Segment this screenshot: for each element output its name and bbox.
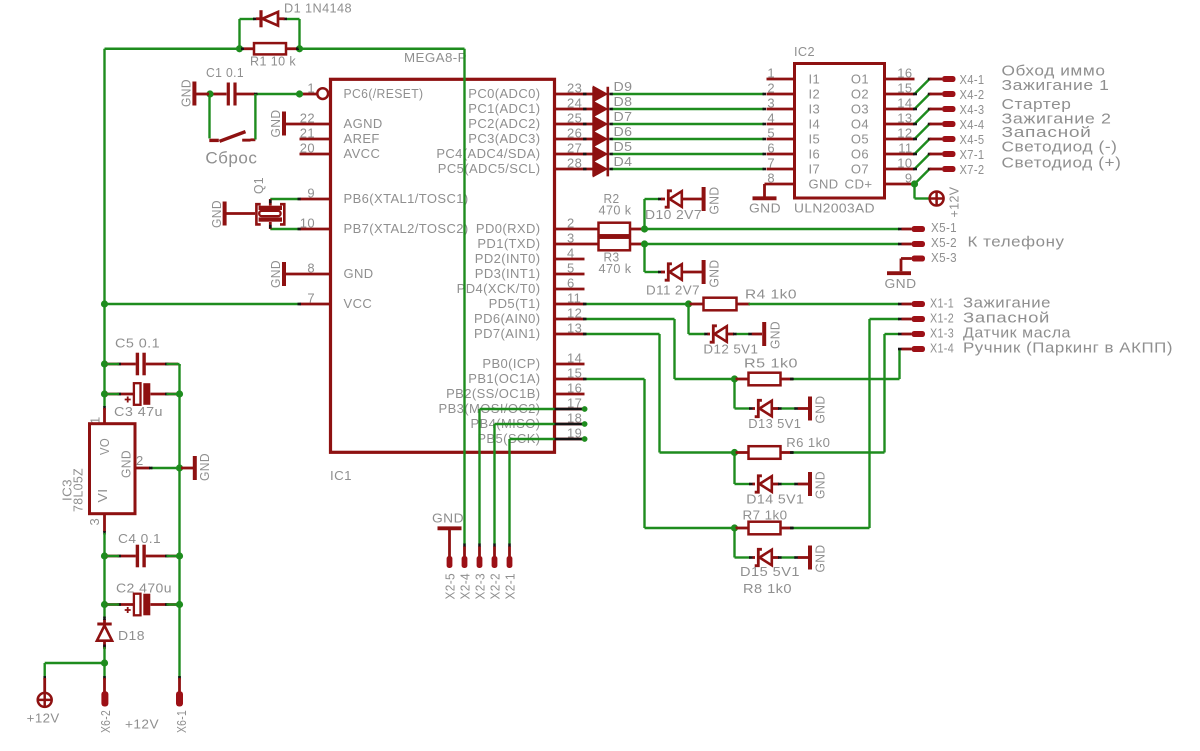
ground bar D10	[702, 187, 706, 211]
IC1 pin 17 PB3(MOSI/OC2) stub	[555, 408, 585, 411]
IC2 pin 12 stub	[885, 138, 915, 141]
svg-text:27: 27	[567, 141, 582, 156]
wire +12V symbol branch	[45, 662, 105, 664]
diode D18	[103, 642, 106, 649]
IC2 pin 16 stub	[885, 78, 915, 81]
ground bar crystal	[223, 202, 227, 226]
IC2 pin 6 stub	[767, 153, 795, 156]
svg-text:25: 25	[567, 111, 582, 126]
svg-text:VO: VO	[97, 438, 112, 455]
svg-text:D18: D18	[118, 628, 145, 643]
junction rail C2	[101, 601, 108, 608]
tip diag row 139	[928, 138, 932, 141]
connector pad X2-4	[462, 556, 468, 568]
connector pad X1-3	[902, 333, 912, 336]
wire +12V left rail lower	[103, 533, 105, 618]
svg-text:14: 14	[567, 351, 582, 366]
connector pad X5 row 244	[902, 243, 912, 246]
svg-text:D9: D9	[614, 79, 633, 94]
svg-text:C3 47u: C3 47u	[114, 404, 163, 419]
ground bar left of C1	[192, 82, 196, 106]
ground bar D11	[702, 260, 706, 284]
connector pad X5-3	[912, 256, 926, 262]
diode D4	[594, 162, 607, 176]
connector pad X6-2	[103, 678, 106, 693]
tip pin row 379	[583, 378, 587, 381]
tip VCC pin7	[298, 303, 302, 306]
junction gnd rail C3	[176, 390, 183, 397]
switch S1 Сброс	[208, 96, 210, 139]
tip R5 out	[790, 378, 794, 381]
wire diagonal pin-row184 to X7-2	[915, 169, 930, 184]
tip D11 left	[658, 271, 662, 274]
svg-text:Светодиод (-): Светодиод (-)	[1002, 139, 1118, 156]
tip R6 out	[790, 451, 794, 454]
junction IC2 pin9	[911, 180, 918, 187]
svg-text:GND: GND	[179, 79, 194, 107]
svg-text:Светодиод (+): Светодиод (+)	[1002, 154, 1122, 171]
svg-text:D6: D6	[614, 124, 633, 139]
tip XTAL2	[298, 228, 301, 231]
svg-text:I2: I2	[809, 86, 821, 101]
tip stub row 184	[913, 183, 917, 186]
svg-text:VCC: VCC	[344, 296, 373, 311]
wire GND right rail	[178, 364, 180, 678]
svg-text:2: 2	[567, 216, 575, 231]
tip D15 mid-left	[778, 556, 782, 559]
svg-text:X7-1: X7-1	[960, 147, 985, 162]
junction rail C5	[101, 360, 108, 367]
tip diag row 124	[928, 123, 932, 126]
wire ISP row 439	[510, 438, 555, 440]
junction R5 left	[731, 375, 738, 382]
tip X2 col 494.5	[493, 544, 496, 548]
ground bar IC3 pin2	[181, 467, 193, 470]
svg-text:X1-1: X1-1	[930, 296, 954, 311]
svg-text:Зажигание 1: Зажигание 1	[1002, 77, 1110, 94]
svg-text:4: 4	[567, 246, 575, 261]
IC1 pin 12 PD6(AIN0) stub	[555, 318, 585, 321]
svg-text:GND: GND	[749, 201, 781, 216]
wire D1 right leg	[298, 19, 300, 49]
ground bar pin8	[282, 262, 286, 286]
svg-text:1: 1	[307, 81, 315, 96]
wire R6 to D14	[733, 453, 735, 485]
tip D1 right	[284, 18, 288, 21]
svg-text:PC0(ADC0): PC0(ADC0)	[468, 86, 540, 101]
IC1 pin 13 PD7(AIN1) stub	[555, 333, 585, 336]
supply +12V symbol (IC2)	[930, 192, 944, 206]
IC1 pin 25 PC2(ADC2) stub	[555, 123, 594, 126]
svg-text:12: 12	[897, 126, 912, 141]
wire ISP overlap row 409	[555, 408, 583, 411]
svg-text:8: 8	[307, 261, 315, 276]
wire pin to R6 feed	[585, 333, 660, 335]
resistor R7	[736, 527, 749, 530]
pin connection dot row 424	[582, 421, 588, 427]
IC1 pin 9 PB6(XTAL1/TOSC1) stub	[300, 198, 330, 201]
resistor R1	[243, 47, 254, 50]
connector pad X2-1	[507, 556, 513, 568]
tip X5 row 229	[898, 228, 902, 231]
svg-text:PD0(RXD): PD0(RXD)	[476, 221, 541, 236]
IC1 pin 3 PD1(TXD) stub	[555, 243, 599, 246]
svg-text:23: 23	[567, 81, 582, 96]
svg-text:PD3(INT1): PD3(INT1)	[475, 266, 541, 281]
svg-text:ULN2003AD: ULN2003AD	[794, 201, 875, 216]
wire VCC rail to R1-right node	[300, 48, 465, 50]
IC1 pin 19 PB5(SCK) stub	[555, 438, 585, 441]
wire R7 to X1-2	[792, 527, 870, 529]
svg-text:MEGA8-P: MEGA8-P	[404, 50, 467, 65]
IC1 pin 15 PB1(OC1A) stub	[555, 378, 585, 381]
svg-text:К телефону: К телефону	[968, 234, 1065, 251]
capacitor C5	[106, 363, 136, 366]
svg-text:GND: GND	[344, 266, 374, 281]
tip X5 row 244	[898, 243, 902, 246]
junction R3 right	[641, 240, 648, 247]
svg-text:PB0(ICP): PB0(ICP)	[482, 356, 540, 371]
tip Q1 bottom	[269, 225, 272, 228]
svg-text:PD6(AIN0): PD6(AIN0)	[474, 311, 540, 326]
svg-text:5: 5	[567, 261, 575, 276]
tip D18 top	[103, 617, 106, 621]
svg-text:24: 24	[567, 96, 582, 111]
svg-text:PC6(/RESET): PC6(/RESET)	[344, 86, 424, 101]
svg-text:+12V: +12V	[947, 187, 962, 218]
junction R1 left	[236, 45, 243, 52]
IC1 pin 26 PC3(ADC3) stub	[555, 138, 594, 141]
svg-text:2: 2	[136, 453, 144, 468]
tip X1-1	[898, 303, 902, 306]
tip wire-IC2 row 139	[763, 138, 767, 141]
svg-text:PC1(ADC1): PC1(ADC1)	[468, 101, 540, 116]
IC2 pin 14 stub	[885, 108, 915, 111]
svg-text:10: 10	[897, 156, 912, 171]
tip D14 mid-left	[778, 483, 782, 486]
X2 pad lead col 479.5	[478, 547, 481, 558]
IC1 pin 1 PC6(/RESET)	[301, 93, 317, 96]
zener diode D14 5V1	[753, 483, 756, 486]
svg-text:3: 3	[87, 518, 102, 526]
tip X2 col 479.5	[478, 544, 481, 548]
wire diagonal pin-row169 to X7-1	[915, 154, 930, 169]
zener diode D10 2V7	[661, 198, 665, 201]
svg-text:VI: VI	[95, 489, 110, 503]
wire gnd rail top corner	[178, 364, 180, 366]
ground bar D13	[798, 407, 808, 410]
tip diode-wire row 109	[609, 108, 613, 111]
supply +12V symbol (bottom left)	[43, 678, 46, 693]
tip X1-3	[898, 333, 902, 336]
resistor R4	[690, 303, 704, 306]
svg-text:28: 28	[567, 156, 582, 171]
svg-text:I1: I1	[809, 71, 821, 86]
pin connection dot row 439	[582, 436, 588, 442]
svg-text:Q1: Q1	[251, 177, 266, 194]
svg-text:X6-1: X6-1	[174, 710, 189, 733]
tip D10 left	[658, 198, 662, 201]
junction rail C4	[101, 552, 108, 559]
svg-text:I7: I7	[809, 161, 821, 176]
IC1 pin 22 AGND stub	[286, 123, 330, 126]
svg-text:O5: O5	[851, 131, 869, 146]
svg-text:15: 15	[897, 81, 912, 96]
svg-text:D15 5V1: D15 5V1	[740, 564, 800, 579]
IC3 pin3 lead	[103, 514, 106, 533]
X2 pad lead col 494.5	[493, 547, 496, 558]
svg-text:11: 11	[898, 141, 912, 156]
wire D13 to gnd lead	[782, 407, 796, 409]
IC2 pin 1 stub	[767, 78, 795, 81]
tip pin11	[583, 303, 587, 306]
IC1 pin 23 PC0(ADC0) stub	[555, 93, 594, 96]
svg-text:GND: GND	[119, 450, 134, 478]
svg-text:PC5(ADC5/SCL): PC5(ADC5/SCL)	[438, 161, 541, 176]
tip wire-IC2 row 94	[763, 93, 767, 96]
svg-text:O6: O6	[851, 146, 869, 161]
IC1 pin 21 AREF stub	[300, 138, 330, 141]
connector pad X7-1	[930, 153, 943, 156]
wire R4 to X1-1	[749, 303, 900, 305]
svg-text:R5 1k0: R5 1k0	[744, 356, 798, 371]
wire D9 to IC2	[612, 93, 765, 95]
svg-text:8: 8	[767, 171, 775, 186]
svg-text:D4: D4	[614, 154, 633, 169]
wire IC3 pin2 to gnd rail	[151, 467, 180, 469]
tip +12V symbol	[43, 676, 46, 680]
svg-text:X4-2: X4-2	[960, 87, 985, 102]
wire D5 to IC2	[612, 153, 765, 155]
connector pad X2-5	[447, 556, 453, 568]
wire diagonal pin-row94 to X4-1	[915, 79, 930, 94]
junction gnd rail C2	[176, 601, 183, 608]
IC1 pin 6 PD4(XCK/T0) stub	[555, 288, 585, 291]
tip wire-IC2 row 169	[763, 168, 767, 171]
IC2 pin 4 stub	[767, 123, 795, 126]
diode D9	[594, 87, 607, 101]
connector pad X6-1	[178, 678, 181, 693]
connector pad X4-5	[930, 138, 943, 141]
connector pad X2-2	[492, 556, 498, 568]
IC1 pin 8 GND stub	[286, 273, 330, 276]
tip diag row 94	[928, 93, 932, 96]
svg-text:GND: GND	[197, 453, 212, 481]
svg-text:X2-5: X2-5	[442, 573, 457, 600]
zener diode D13 5V1	[753, 407, 756, 410]
wire ISP overlap row 439	[555, 438, 583, 441]
tip stub row 94	[913, 93, 917, 96]
tip D1 left	[253, 18, 257, 21]
IC1 pin 4 PD2(INT0) stub	[555, 258, 585, 261]
svg-text:13: 13	[897, 111, 912, 126]
svg-text:15: 15	[567, 366, 582, 381]
IC IC2 ULN2003AD body	[795, 64, 885, 199]
wire R5 to X1-4	[792, 378, 900, 380]
svg-text:10: 10	[300, 216, 315, 231]
zener diode D11 2V7	[661, 271, 665, 274]
junction +12V node	[101, 659, 108, 666]
svg-text:X6-2: X6-2	[98, 710, 113, 733]
svg-text:7: 7	[307, 291, 315, 306]
svg-text:PD7(AIN1): PD7(AIN1)	[474, 326, 540, 341]
svg-text:GND: GND	[209, 200, 224, 228]
svg-text:R1 10 k: R1 10 k	[250, 54, 296, 69]
tip IC3 pin2	[149, 467, 153, 470]
wire diagonal pin-row154 to X4-5	[915, 139, 930, 154]
connector pad X2-3	[477, 556, 483, 568]
IC2 pin 8 stub	[767, 183, 795, 186]
svg-text:D7: D7	[614, 109, 633, 124]
tip stub row 109	[913, 108, 917, 111]
tip X2 col 509.5	[508, 544, 511, 548]
svg-text:Ручник (Паркинг в АКПП): Ручник (Паркинг в АКПП)	[963, 340, 1173, 357]
junction gnd rail C4	[176, 552, 183, 559]
svg-text:O1: O1	[851, 71, 869, 86]
tip X1-4	[898, 348, 902, 351]
wire diagonal pin-row124 to X4-3	[915, 109, 930, 124]
svg-text:GND: GND	[432, 511, 464, 526]
svg-text:GND: GND	[885, 276, 917, 291]
wire RESET node to pin1	[256, 93, 300, 95]
wire R7 to D15	[733, 528, 735, 558]
X2 pad lead col 509.5	[508, 547, 511, 558]
svg-text:3: 3	[567, 231, 575, 246]
tip stub row 124	[913, 123, 917, 126]
wire pin to R5 feed	[585, 318, 675, 320]
tip pin row 319	[583, 318, 587, 321]
pin connection dot row 409	[582, 406, 588, 412]
tip R1 left	[241, 47, 244, 50]
tip stub row 169	[913, 168, 917, 171]
svg-text:D5: D5	[614, 139, 633, 154]
wire D12 to gnd lead	[737, 333, 750, 335]
tip diode-wire row 124	[609, 123, 613, 126]
wire R2 to D10	[643, 199, 645, 229]
IC2 pin 15 stub	[885, 93, 915, 96]
tip D18 bottom	[103, 645, 106, 649]
resistor R2	[599, 223, 631, 236]
wire XTAL1 pin9	[270, 198, 299, 200]
IC1 pin 18 PB4(MISO) stub	[555, 423, 585, 426]
wire R6 to X1-3	[792, 451, 885, 453]
IC1 pin 27 PC4(ADC4/SDA) stub	[555, 153, 594, 156]
capacitor C4	[106, 555, 136, 558]
tip C1 right	[254, 93, 258, 96]
wire D1 left leg	[238, 19, 240, 49]
IC2 pin 3 stub	[767, 108, 795, 111]
svg-text:X5-2: X5-2	[931, 235, 957, 250]
svg-text:D11 2V7: D11 2V7	[646, 283, 700, 298]
svg-text:CD+: CD+	[845, 177, 873, 192]
svg-text:I6: I6	[809, 146, 821, 161]
tip pin-diode row 109	[583, 108, 587, 111]
svg-text:26: 26	[567, 126, 582, 141]
wire R3 to X5 pad	[645, 243, 900, 245]
junction RESET node	[296, 90, 303, 97]
tip stub row 139	[913, 138, 917, 141]
tip diag row 169	[928, 168, 932, 171]
svg-text:R8 1k0: R8 1k0	[743, 581, 792, 596]
IC1 pin 20 AVCC stub	[300, 153, 330, 156]
svg-text:D8: D8	[614, 94, 633, 109]
tip pin-diode row 124	[583, 123, 587, 126]
wire R5 to D13	[733, 379, 735, 409]
IC2 pin 7 stub	[767, 168, 795, 171]
svg-text:I4: I4	[809, 116, 821, 131]
capacitor C3 (polarised)	[106, 393, 133, 396]
tip diode-wire row 139	[609, 138, 613, 141]
tip wire-IC2 row 124	[763, 123, 767, 126]
X2-4 pad lead	[463, 547, 466, 558]
tip D14 mid-right	[794, 483, 798, 486]
tip D15 left	[749, 556, 753, 559]
svg-text:X7-2: X7-2	[960, 162, 985, 177]
IC2 pin 13 stub	[885, 123, 915, 126]
svg-text:5: 5	[767, 126, 775, 141]
tip D12 mid-right	[748, 333, 752, 336]
svg-text:3: 3	[767, 96, 775, 111]
IC3 pin2 lead	[135, 467, 150, 470]
connector pad X4-4	[930, 123, 943, 126]
tip X6-2	[103, 676, 106, 680]
svg-text:2: 2	[767, 81, 775, 96]
IC2 pin 11 stub	[885, 153, 915, 156]
svg-text:R7 1k0: R7 1k0	[743, 508, 788, 523]
junction R6 left	[731, 449, 738, 456]
IC1 pin 5 PD3(INT1) stub	[555, 273, 585, 276]
tip diode-wire row 94	[609, 93, 613, 96]
junction R1 right	[296, 45, 303, 52]
crystal Q1	[269, 199, 272, 206]
svg-text:21: 21	[300, 126, 315, 141]
svg-text:1: 1	[767, 66, 775, 81]
diode D1 1N4148	[256, 17, 260, 20]
svg-text:12: 12	[567, 306, 582, 321]
svg-text:X4-1: X4-1	[960, 72, 985, 87]
svg-text:X4-3: X4-3	[960, 102, 985, 117]
svg-text:I3: I3	[809, 101, 821, 116]
tip D12 left	[704, 333, 708, 336]
svg-text:D1 1N4148: D1 1N4148	[284, 1, 352, 16]
svg-text:D10 2V7: D10 2V7	[645, 207, 702, 222]
IC1 pin 7 VCC stub	[300, 303, 330, 306]
ground IC2 pin8	[765, 183, 767, 186]
svg-text:D13 5V1: D13 5V1	[748, 416, 801, 431]
ground bar D15	[798, 556, 808, 559]
IC1 pin 16 PB2(SS/OC1B) stub	[555, 393, 585, 396]
svg-text:X1-3: X1-3	[930, 326, 954, 341]
svg-text:C5 0.1: C5 0.1	[115, 336, 160, 351]
diode column cathode rail	[606, 87, 609, 177]
IC3 pin1 lead	[103, 408, 106, 423]
diode D6	[594, 132, 607, 146]
svg-text:I5: I5	[809, 131, 821, 146]
tip wire-IC2 row 109	[763, 108, 767, 111]
svg-text:PC3(ADC3): PC3(ADC3)	[468, 131, 540, 146]
resistor R6	[736, 451, 749, 454]
IC1 pin 28 PC5(ADC5/SCL) stub	[555, 168, 594, 171]
junction rail C3	[101, 390, 108, 397]
svg-text:6: 6	[767, 141, 775, 156]
IC2 pin 2 stub	[767, 93, 795, 96]
tip X2-4 col	[463, 544, 466, 548]
tip diag row 154	[928, 153, 932, 156]
ground X2-5	[438, 526, 462, 530]
svg-text:16: 16	[567, 381, 582, 396]
svg-text:11: 11	[567, 291, 581, 306]
svg-text:GND: GND	[813, 471, 828, 499]
